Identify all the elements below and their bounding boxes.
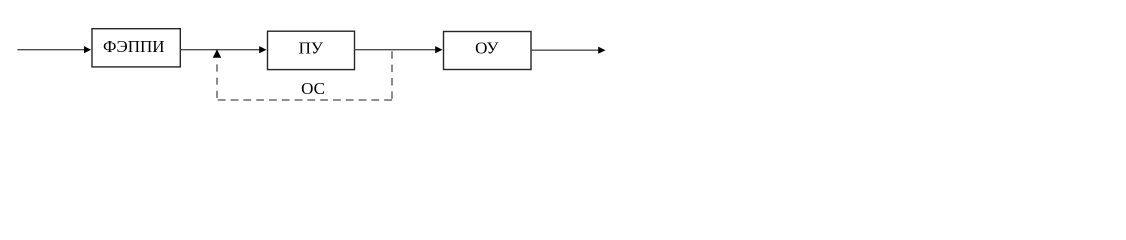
svg-text:ПУ: ПУ <box>299 38 324 57</box>
arrowhead into ФЭППИ <box>84 46 91 53</box>
arrowhead into ОУ <box>435 46 442 53</box>
wire output <box>531 49 599 51</box>
wire input <box>18 49 86 51</box>
arrowhead output <box>598 47 605 54</box>
arrowhead feedback up <box>213 49 221 58</box>
svg-text:ОУ: ОУ <box>475 39 499 58</box>
arrowhead into ПУ <box>259 46 266 53</box>
block ФЭППИ <box>92 29 180 67</box>
block ПУ <box>268 31 355 69</box>
wire feedback tap vertical dashed <box>391 51 393 100</box>
svg-text:ОС: ОС <box>301 79 325 98</box>
svg-text:ФЭППИ: ФЭППИ <box>103 37 164 56</box>
block ОУ <box>444 32 532 70</box>
wire feedback return vertical dashed <box>216 64 218 100</box>
wire ПУ to ОУ <box>355 49 437 51</box>
wire ФЭППИ to ПУ <box>180 49 260 51</box>
wire feedback bottom horizontal dashed <box>217 99 392 101</box>
